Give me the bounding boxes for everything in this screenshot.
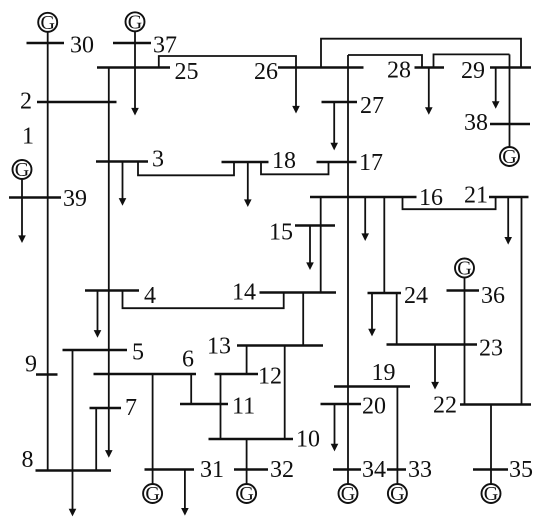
load arrow bus 3 [119,162,127,206]
svg-text:G: G [128,11,142,33]
svg-text:2: 2 [20,89,32,115]
bus 5 bar [63,349,128,352]
bus 39 bar [9,196,61,199]
wire 28-29 [434,54,510,67]
svg-text:12: 12 [258,364,282,390]
generator G33 [388,483,407,505]
bus 13 bar [237,344,323,347]
bus 14 bar [260,291,337,294]
bus 38 bar [490,123,530,126]
bus 9 tick [36,373,58,376]
svg-text:G: G [457,258,471,280]
bus 35 bar [473,468,508,471]
svg-text:31: 31 [200,457,224,483]
bus 33 bar [387,468,406,471]
wire 7-8 [95,408,97,471]
wire 19-33 [396,387,398,470]
svg-text:32: 32 [270,457,294,483]
svg-text:33: 33 [408,457,432,483]
svg-text:G: G [15,159,29,181]
load arrow bus 15 [306,226,314,271]
bus 27 bar [322,101,358,104]
bus 10 bar [209,438,294,441]
svg-text:5: 5 [132,340,144,366]
svg-text:14: 14 [232,280,256,306]
wire G30-30-2-39-9-8 spine [47,32,49,470]
generator G37 [126,11,145,33]
svg-text:G: G [145,483,159,505]
wire 12-11-10 [220,374,222,439]
wire G36-36-23-22 spine [464,278,466,405]
bus 37 bar [113,42,151,45]
wire 6-11 [190,374,192,404]
generator G30 [38,12,57,34]
wire 32-G32 [246,470,248,486]
load arrow bus 24 [368,293,376,336]
svg-text:23: 23 [479,336,503,362]
wire 16-15-14 [320,197,322,293]
wire G37-37-25 spine [134,32,136,109]
wire G39-39 + load arrow bus 39 [18,179,26,243]
load arrow bus 27 [330,102,338,150]
svg-text:17: 17 [359,150,383,176]
svg-text:G: G [239,483,253,505]
load arrow bus 21 [504,197,512,245]
wire 13-12 [246,346,248,375]
bus 7 bar [90,407,122,410]
bus 15 bar [295,224,335,227]
bus 36 bar [447,289,480,292]
bus 23 bar [387,343,478,346]
generator G32 [237,483,256,505]
bus 17 bar [317,161,357,164]
svg-text:38: 38 [464,110,488,136]
wire 13-10 [284,346,286,440]
bus 26 bar [278,66,364,69]
bus 31 bar [145,468,195,471]
svg-text:15: 15 [269,220,293,246]
bus 21 bar [489,196,529,199]
svg-text:26: 26 [254,59,278,85]
load arrow bus 18 [244,162,252,207]
bus 28 bar [415,66,445,69]
load arrow bus 4 [94,291,102,338]
svg-text:G: G [341,483,355,505]
load arrow bus 28 [425,68,433,115]
bus 16 bar [310,196,417,199]
load arrow bus 31 [181,470,189,516]
wire 26-27-17-16-19-20-34 spine [347,55,349,470]
svg-text:16: 16 [419,185,443,211]
load arrow bus 25 [131,108,139,116]
generator G35 [482,483,501,505]
svg-text:20: 20 [362,394,386,420]
wire 26-28 [348,55,422,68]
svg-text:34: 34 [362,457,386,483]
load arrow bus 20 [331,404,339,451]
svg-text:21: 21 [464,183,488,209]
wire 10-32 [246,439,248,470]
load arrow bus 7 [105,450,113,458]
bus 34 bar [333,468,361,471]
svg-text:35: 35 [509,457,533,483]
generator G31 [143,483,162,505]
wire 22-35 [490,405,492,470]
wire 6-31 [152,374,154,470]
wire 18-17 [261,162,329,174]
svg-text:G: G [390,483,404,505]
svg-text:36: 36 [481,283,505,309]
bus 24 bar [368,292,402,295]
svg-text:10: 10 [296,427,320,453]
bus 19 bar [334,385,410,388]
svg-text:6: 6 [182,347,194,373]
wire 5-8 + load arrow bus 8 [69,350,77,516]
svg-text:13: 13 [207,334,231,360]
svg-text:9: 9 [25,352,37,378]
wire 21-22 [521,197,523,405]
bus 22 bar [460,403,531,406]
svg-text:28: 28 [387,58,411,84]
generator G38 [500,146,519,168]
wire 35-G35 [490,470,492,486]
wire 31-G31 [152,470,154,486]
svg-text:30: 30 [70,33,94,59]
svg-text:1: 1 [22,124,34,150]
wire 25-26 [159,56,296,68]
wire 3-18 [138,162,234,176]
svg-text:24: 24 [404,283,428,309]
wire 24-23 [396,293,398,345]
bus 18 bar [222,161,269,164]
svg-text:4: 4 [144,283,156,309]
bus 29 bar [490,66,531,69]
svg-text:G: G [484,483,498,505]
svg-text:19: 19 [372,360,396,386]
load arrow bus 29 [492,68,500,109]
svg-text:8: 8 [22,447,34,473]
wire 4-14 [123,291,284,309]
generator G34 [339,483,358,505]
bus 11 bar [180,403,228,406]
wire 13-14 [302,293,304,346]
bus 8 bar [36,469,112,472]
load arrow bus 23 [431,345,439,390]
bus 20 bar [321,403,362,406]
svg-text:39: 39 [63,186,87,212]
bus 2 bar [37,101,117,104]
load arrow bus 26 [292,68,300,114]
svg-text:29: 29 [461,58,485,84]
wire 33-G33 [396,470,398,486]
bus 6 bar [94,373,197,376]
svg-text:G: G [502,146,516,168]
svg-text:37: 37 [153,33,177,59]
load arrow bus 16 [361,197,369,241]
generator G36 [455,258,474,280]
svg-text:25: 25 [175,59,199,85]
svg-text:22: 22 [433,393,457,419]
bus 12 bar [215,373,259,376]
wire 16-24 [383,197,385,293]
svg-text:27: 27 [360,93,384,119]
svg-text:3: 3 [152,147,164,173]
svg-text:18: 18 [272,148,296,174]
generator G39 [13,159,32,181]
wire 16-21 [403,197,496,209]
svg-text:G: G [40,12,54,34]
bus 32 bar [234,468,268,471]
svg-text:7: 7 [125,395,137,421]
bus 25 bar [97,66,170,69]
wire 26-29 [321,39,521,68]
wire 34-G34 [347,470,349,486]
wire 29-38-G spine [509,54,511,146]
bus 4 bar [85,289,139,292]
bus 30 bar [27,42,65,45]
wire 2-25-3-4-5-6-7 spine [108,68,110,451]
svg-text:11: 11 [232,394,255,420]
bus 3 bar [96,160,148,163]
